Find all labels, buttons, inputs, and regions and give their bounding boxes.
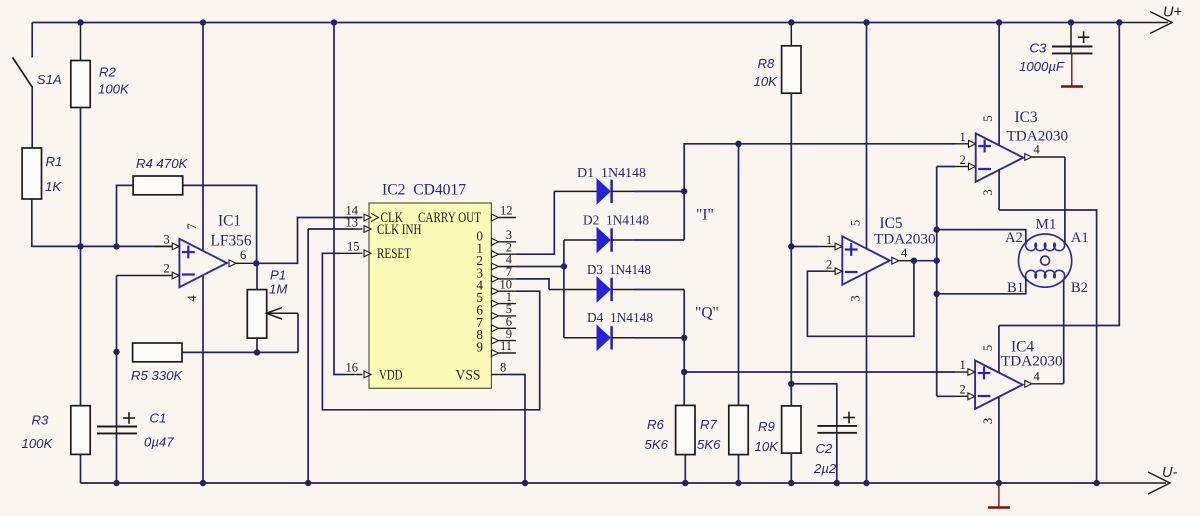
junction IC1 output node: [253, 260, 259, 266]
pin 6 IC2 output 7: [476, 315, 515, 332]
junction D1 cathode: [681, 188, 687, 194]
svg-text:IC3: IC3: [1015, 109, 1038, 126]
wire D1 D2 cathodes node I: [612, 144, 955, 240]
svg-text:R7: R7: [700, 417, 718, 432]
svg-text:4: 4: [1034, 370, 1041, 384]
svg-text:CLK INH: CLK INH: [377, 222, 422, 238]
svg-text:13: 13: [346, 216, 359, 230]
pin 1 IC3 non-inverting input: [955, 130, 976, 147]
wire motor terminal B1: [937, 278, 1026, 296]
pin 7 IC1 positive supply: [185, 23, 203, 251]
svg-text:D4 1N4148: D4 1N4148: [587, 311, 653, 326]
junction R8 R9 IC5 node: [788, 243, 794, 249]
junction output 2 net: [561, 263, 567, 269]
svg-text:RESET: RESET: [377, 246, 411, 262]
svg-text:3: 3: [981, 418, 995, 424]
junction IC5 output feedback: [911, 258, 917, 264]
svg-text:2: 2: [960, 383, 966, 397]
junction bottom rail R7: [735, 480, 741, 486]
svg-text:1: 1: [960, 130, 966, 144]
pin 2 IC3 inverting input: [937, 153, 976, 170]
op-amp IC1 LF356: [179, 213, 251, 288]
capacitor C1 electrolytic: [97, 352, 174, 483]
switch S1A: [13, 23, 62, 149]
wire RESET net to output 4 and VSS loop: [322, 253, 539, 409]
svg-text:3: 3: [164, 232, 170, 246]
junction IC5 output to motor common: [934, 258, 940, 264]
wire U+ top power rail: [32, 22, 1122, 24]
pin 2 IC1 inverting input: [117, 262, 180, 352]
svg-text:10K: 10K: [755, 439, 780, 454]
diode D4 1N4148: [587, 311, 653, 350]
junction D4 cathode: [681, 335, 687, 341]
resistor R8: [754, 23, 802, 247]
wire IC4 pin5 to U+: [999, 23, 1119, 326]
svg-text:IC1: IC1: [218, 213, 241, 230]
pin 2 IC5 inverting input: [826, 258, 842, 275]
svg-text:"Q": "Q": [695, 305, 719, 322]
pin 5 IC4 positive supply: [981, 326, 999, 373]
pin 2 IC2 output 1: [476, 240, 515, 257]
svg-text:2µ2: 2µ2: [813, 461, 837, 476]
resistor R9: [755, 247, 802, 484]
ground IC4 pin3: [988, 483, 1010, 508]
wire output 2 net to D2 anode: [516, 240, 597, 267]
pin 15 RESET input: [340, 239, 411, 262]
svg-text:9: 9: [476, 340, 483, 355]
diode D2 1N4148: [583, 214, 649, 253]
svg-text:D2 1N4148: D2 1N4148: [583, 214, 649, 229]
pin 16 VDD supply: [345, 361, 403, 384]
pin 5 IC3 positive supply: [981, 23, 999, 146]
wire IC3 pin3 to U-: [999, 210, 1097, 483]
svg-text:5K6: 5K6: [697, 437, 721, 452]
svg-text:6: 6: [240, 248, 246, 262]
junction bottom rail IC3 pin3: [1093, 480, 1099, 486]
junction bottom rail IC4 pin3: [996, 480, 1002, 486]
junction top rail IC3 pin5: [996, 19, 1002, 25]
pin 5 IC2 output 6: [476, 302, 515, 319]
svg-text:C1: C1: [150, 411, 167, 426]
pin 3 IC5 negative supply: [849, 273, 867, 483]
junction node A / R2: [77, 243, 83, 249]
wire D3 D4 cathodes node Q: [612, 290, 685, 406]
wire CLK INH to U-: [307, 229, 309, 483]
svg-text:R9: R9: [758, 419, 776, 434]
resistor R7: [697, 144, 748, 483]
resistor R5: [131, 343, 184, 383]
svg-text:1: 1: [960, 358, 966, 372]
svg-text:12: 12: [500, 204, 513, 218]
junction P1 bottom: [254, 349, 260, 355]
pin 1 IC2 output 5: [476, 290, 515, 307]
junction motor B1 tap: [934, 291, 940, 297]
wire U- bottom power rail: [81, 482, 1101, 484]
wire output 2 net to D4 anode: [564, 267, 597, 338]
svg-text:R3: R3: [32, 413, 50, 428]
svg-text:IC5: IC5: [880, 215, 903, 232]
ground C3: [1061, 53, 1083, 86]
svg-text:R1: R1: [46, 154, 63, 169]
svg-text:VDD: VDD: [379, 368, 403, 384]
node A1 label: [1071, 230, 1089, 246]
svg-text:5: 5: [849, 220, 863, 226]
svg-text:1K: 1K: [45, 179, 62, 194]
svg-text:4: 4: [901, 246, 908, 260]
svg-text:"I": "I": [696, 207, 714, 224]
wire IC3 output to motor A1: [1064, 157, 1066, 243]
svg-text:A1: A1: [1071, 230, 1089, 246]
op-amp IC5 TDA2030: [842, 215, 936, 285]
svg-text:2: 2: [826, 258, 832, 272]
pin 7 IC2 output 3: [476, 265, 515, 282]
pin 8 VSS: [456, 361, 511, 384]
pin 9 IC2 output 8: [476, 327, 515, 344]
pin 2 IC4 inverting input: [937, 383, 975, 400]
diode D1 1N4148: [577, 166, 646, 204]
capacitor C2 electrolytic: [791, 384, 857, 483]
svg-text:B2: B2: [1071, 280, 1088, 296]
svg-text:2: 2: [164, 262, 170, 276]
junction top rail R2: [77, 19, 83, 25]
svg-text:16: 16: [346, 361, 359, 375]
pin 4 IC4 output: [1025, 370, 1064, 388]
svg-text:VSS: VSS: [456, 368, 481, 384]
svg-text:CARRY OUT: CARRY OUT: [418, 210, 481, 226]
junction bottom rail C2: [834, 480, 840, 486]
junction node A / R4 branch: [113, 243, 119, 249]
pin 14 CLK input: [345, 204, 404, 227]
IC IC2 CD4017 body: [369, 182, 491, 389]
op-amp IC3 TDA2030: [976, 109, 1069, 182]
pin 3 IC1 non-inverting input: [155, 232, 179, 250]
svg-text:A2: A2: [1005, 230, 1023, 246]
svg-text:1: 1: [826, 233, 832, 247]
svg-text:5: 5: [981, 345, 995, 351]
svg-text:15: 15: [347, 239, 360, 253]
svg-text:8: 8: [500, 361, 506, 375]
junction top rail IC5 pin5: [863, 19, 869, 25]
svg-text:LF356: LF356: [211, 232, 252, 249]
svg-text:TDA2030: TDA2030: [874, 231, 936, 248]
wire output 1 to D1 anode: [516, 191, 597, 254]
wire VDD to U+: [334, 23, 345, 375]
junction R7 branch: [735, 141, 741, 147]
svg-text:3: 3: [849, 295, 863, 301]
svg-text:U-: U-: [1162, 465, 1177, 481]
pin 4 IC2 output 2: [476, 253, 515, 270]
pin 3 IC4 negative supply: [981, 397, 999, 483]
pin 1 IC4 non-inverting input: [955, 358, 975, 375]
svg-text:B1: B1: [1007, 280, 1024, 296]
svg-text:0µ47: 0µ47: [144, 435, 174, 450]
svg-text:M1: M1: [1036, 217, 1057, 233]
svg-text:R4 470K: R4 470K: [136, 156, 189, 171]
junction top rail IC4 pin5: [1116, 19, 1122, 25]
wire motor terminal A2: [937, 230, 1026, 246]
pin 3 IC2 output 0: [476, 228, 515, 245]
junction bottom rail VSS: [522, 480, 528, 486]
terminal U- arrow: [1100, 465, 1177, 494]
svg-text:C2: C2: [816, 441, 834, 456]
svg-text:10K: 10K: [754, 74, 779, 89]
junction Q to IC4 branch: [681, 369, 687, 375]
svg-text:5: 5: [981, 115, 995, 121]
svg-text:R8: R8: [758, 56, 776, 71]
resistor R1: [22, 148, 62, 199]
pin 6 IC1 output: [229, 248, 256, 267]
svg-text:P1: P1: [270, 268, 286, 283]
junction bottom rail R9: [788, 480, 794, 486]
pin 13 CLK INH input: [308, 216, 421, 239]
pin 3 IC3 negative supply: [981, 169, 999, 210]
svg-text:100K: 100K: [98, 82, 130, 97]
capacitor C3 electrolytic: [1019, 23, 1092, 75]
pin 10 IC2 output 4: [476, 277, 515, 294]
resistor R4 feedback: [117, 156, 257, 263]
svg-text:TDA2030: TDA2030: [1001, 353, 1063, 370]
wire output 3 to D3 anode: [516, 279, 597, 290]
svg-text:7: 7: [185, 223, 199, 229]
pin 4 IC5 output: [892, 246, 937, 264]
junction bottom rail pin4: [200, 480, 206, 486]
junction bottom rail IC5 pin3: [863, 480, 869, 486]
junction R9 top C2 branch: [788, 381, 794, 387]
junction R5 left / C1 branch: [113, 349, 119, 355]
node I label: [696, 207, 714, 224]
pin 4 IC1 negative supply: [185, 276, 203, 483]
svg-text:4: 4: [185, 295, 199, 302]
junction top rail pin7: [200, 19, 206, 25]
node Q label: [695, 305, 719, 322]
wire motor common vertical: [936, 167, 938, 397]
junction top rail R8: [788, 19, 794, 25]
junction bottom rail CLK INH: [305, 480, 311, 486]
svg-text:IC2 CD4017: IC2 CD4017: [382, 182, 466, 199]
svg-text:C3: C3: [1030, 41, 1048, 56]
svg-text:D3 1N4148: D3 1N4148: [587, 263, 651, 278]
pin 11 IC2 output 9: [476, 339, 515, 356]
svg-text:11: 11: [500, 339, 512, 353]
junction bottom rail R6: [682, 480, 688, 486]
svg-text:1000µF: 1000µF: [1019, 59, 1065, 74]
op-amp IC4 TDA2030: [975, 339, 1063, 409]
pin 1 IC5 non-inverting input: [791, 233, 842, 250]
pin 12 CARRY OUT output: [418, 204, 516, 227]
junction top rail VDD: [331, 19, 337, 25]
wire IC5 feedback loop: [807, 261, 914, 337]
wire IC1 output to CLK: [256, 218, 362, 264]
motor M1 stepper: [1019, 217, 1072, 288]
junction bottom rail C1: [113, 480, 119, 486]
pin 4 IC3 output: [1025, 143, 1065, 161]
wire P1 bottom net: [182, 351, 298, 353]
svg-text:2: 2: [960, 153, 966, 167]
svg-text:1M: 1M: [269, 282, 287, 297]
svg-text:4: 4: [1034, 143, 1041, 157]
node B2 label: [1071, 280, 1088, 296]
junction top rail C3: [1068, 19, 1074, 25]
svg-text:100K: 100K: [22, 436, 54, 451]
svg-text:R5 330K: R5 330K: [131, 368, 184, 383]
svg-text:S1A: S1A: [37, 72, 62, 87]
wire node Q to IC4 input: [684, 371, 955, 373]
resistor R2: [71, 23, 130, 247]
resistor R6: [645, 405, 696, 483]
pin 5 IC5 positive supply: [849, 23, 867, 249]
wire VSS to U-: [510, 375, 525, 484]
svg-text:R6: R6: [647, 417, 665, 432]
svg-text:R2: R2: [99, 65, 117, 80]
junction motor A2 tap: [934, 226, 940, 232]
diode D3 1N4148: [587, 263, 651, 302]
svg-text:3: 3: [981, 189, 995, 195]
wire IC4 output to motor B2: [1063, 278, 1065, 383]
potentiometer P1 1M: [247, 263, 298, 352]
svg-text:D1 1N4148: D1 1N4148: [577, 166, 646, 181]
terminal U+ arrow: [1122, 5, 1182, 34]
svg-text:U+: U+: [1163, 5, 1182, 21]
wire R1 to node A: [32, 199, 173, 246]
resistor R3: [22, 246, 91, 483]
svg-text:5K6: 5K6: [645, 437, 669, 452]
